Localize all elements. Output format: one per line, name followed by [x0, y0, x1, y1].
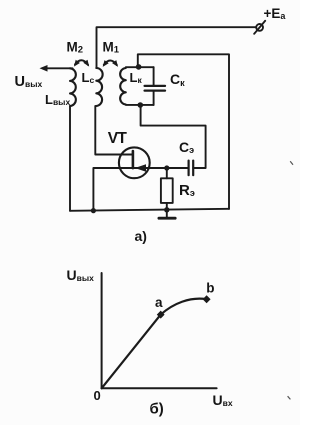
transistor VT base bar — [132, 151, 135, 168]
curve linear part — [102, 315, 161, 389]
point b — [203, 295, 211, 303]
wire tank frame — [138, 54, 229, 209]
wire emitter line — [120, 167, 189, 169]
wire left rail — [69, 106, 71, 211]
wire collector branch — [93, 168, 119, 211]
capacitor Ck bottom lead — [153, 92, 155, 105]
svg-text:b: b — [206, 280, 214, 295]
junction dot tank top — [136, 64, 142, 70]
svg-text:VT: VT — [108, 130, 128, 147]
wire +Ea supply rail — [97, 27, 257, 68]
junction dot tank bottom — [138, 102, 144, 108]
coupling arrowhead M1 right — [112, 60, 118, 67]
coupling arrow M1 arc — [104, 60, 117, 65]
coupling arrowhead M2 left — [74, 60, 80, 67]
coupling arrowhead M2 right — [83, 60, 89, 67]
output arrowhead — [40, 65, 48, 72]
ground — [166, 210, 168, 218]
transistor VT emitter arrow — [135, 164, 146, 172]
graph y axis — [101, 273, 103, 388]
junction dot ground node — [164, 207, 169, 212]
wire ground rail — [70, 209, 229, 211]
svg-text:б): б) — [150, 401, 164, 418]
coupling arrowhead M1 left — [103, 60, 109, 67]
transistor VT circle — [119, 147, 150, 178]
resistor Re — [161, 178, 173, 203]
speck mark bottom right — [288, 396, 291, 399]
wire Ce to tank bottom — [141, 105, 206, 168]
curve saturation part — [161, 299, 207, 315]
svg-text:а): а) — [135, 228, 147, 244]
junction dot collector-rail — [91, 208, 96, 213]
wire Lc bottom to base — [95, 106, 132, 155]
junction dot emitter node — [164, 165, 169, 170]
inductor Lvyh — [70, 68, 76, 106]
inductor Lc — [96, 68, 102, 106]
terminal +Ea — [256, 24, 263, 31]
svg-text:0: 0 — [94, 388, 101, 403]
graph x axis — [102, 387, 217, 389]
point a — [157, 311, 165, 319]
wire tank top — [126, 66, 154, 68]
coupling arrow M2 arc — [75, 60, 88, 65]
svg-text:a: a — [155, 295, 163, 310]
capacitor Ck top lead — [153, 67, 155, 85]
capacitor Ck plates — [145, 85, 165, 87]
speck mark right — [290, 161, 293, 165]
inductor Lk — [120, 68, 126, 105]
wire tank bottom — [126, 104, 154, 106]
capacitor Ce — [188, 161, 190, 176]
wire output lead — [47, 67, 73, 69]
